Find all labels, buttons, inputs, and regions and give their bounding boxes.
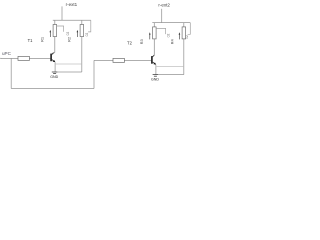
- wire: supply rail 1: [53, 19, 91, 21]
- wire: rail end hook down to tag: [88, 20, 91, 32]
- resistor R2 branch: top lead: [81, 20, 83, 24]
- svg-text:R1: R1: [40, 36, 45, 42]
- wire: ground rail horizontal to R2 leg: [57, 71, 82, 73]
- label GND (right ground): [151, 78, 159, 82]
- svg-text:r-ext1: r-ext1: [66, 2, 78, 7]
- wire: supply rail 2: [152, 22, 190, 24]
- transistor T1 (NPN): [51, 53, 55, 63]
- wire: uPC input horizontal to T1 base: [1, 57, 51, 59]
- wire: hook stub from R3 to label: [156, 28, 165, 34]
- svg-text:R3: R3: [139, 39, 144, 45]
- label R3 (rotated refdes): [139, 39, 144, 45]
- resistor R1 bottom lead to T1 collector: [52, 37, 55, 55]
- wire: rail end hook down to tag: [188, 23, 191, 35]
- label T1: [28, 38, 34, 43]
- svg-text:T2: T2: [127, 40, 133, 45]
- label R4 (rotated refdes): [169, 39, 174, 45]
- label R1 (rotated refdes): [40, 36, 45, 42]
- resistor R1 body: [53, 25, 57, 37]
- label T2: [127, 40, 133, 45]
- wire: emitter node horizontal to R4 leg: [156, 66, 184, 68]
- current arrow beside R4: [179, 32, 181, 39]
- node uPC (input net label): [2, 51, 12, 56]
- svg-text:r-ext2: r-ext2: [158, 2, 170, 7]
- wire: junction drop from uPC node down: [10, 58, 12, 88]
- wire: ground rail horizontal to R4 leg: [158, 74, 184, 76]
- wire: hook stub from R1 to label: [57, 26, 64, 32]
- wire: middle run to T2 base: [94, 59, 151, 61]
- resistor R4 branch: top lead: [183, 23, 185, 27]
- node r-ext1: [66, 2, 78, 7]
- current arrow beside R3: [149, 32, 151, 39]
- label R2 (rotated refdes): [67, 36, 72, 42]
- svg-text:02: 02: [85, 33, 89, 37]
- svg-text:02: 02: [166, 34, 170, 38]
- label 02 (rail hook tag): [185, 35, 189, 39]
- resistor R4 body: [182, 27, 186, 39]
- label 02 (hook net tag): [166, 34, 170, 38]
- resistor R2 long lead down to ground rail: [81, 37, 83, 73]
- svg-text:02: 02: [66, 32, 70, 36]
- resistor Rb2 (series base resistor, right): [113, 58, 124, 62]
- current arrow beside R1: [50, 30, 52, 37]
- svg-text:R2: R2: [67, 36, 72, 42]
- current arrow beside R2: [77, 30, 79, 37]
- label 02 (hook net tag): [66, 32, 70, 36]
- wire: T2 emitter down to GND: [155, 65, 157, 75]
- resistor Rb1 (series base resistor, left): [18, 56, 29, 60]
- wire: T1 emitter down to GND: [54, 62, 56, 72]
- wire: right riser of feedback loop: [93, 60, 95, 88]
- pin: uPC input terminal: [0, 58, 2, 59]
- label 02 (rail hook tag): [85, 33, 89, 37]
- ground GND1: [52, 72, 58, 74]
- resistor R3 body: [153, 27, 157, 39]
- svg-text:GND: GND: [50, 75, 58, 79]
- svg-text:uPC: uPC: [2, 51, 12, 56]
- resistor R1 branch: top lead: [54, 20, 56, 24]
- resistor R4 long lead down to ground rail: [183, 39, 185, 75]
- svg-text:T1: T1: [28, 38, 34, 43]
- wire: bottom feedback run: [11, 88, 94, 90]
- svg-text:R4: R4: [169, 39, 174, 45]
- ground GND2: [153, 75, 159, 77]
- resistor R2 body: [80, 25, 84, 37]
- svg-text:02: 02: [185, 35, 189, 39]
- wire: emitter node horizontal to R2 leg: [55, 63, 82, 65]
- resistor R3 branch: top lead: [153, 23, 155, 27]
- label GND (left ground): [50, 75, 58, 79]
- svg-text:GND: GND: [151, 78, 159, 82]
- node r-ext2: [158, 2, 170, 7]
- wire: r-ext2 supply stem: [161, 9, 163, 23]
- resistor R3 bottom lead to T2 collector: [153, 39, 155, 57]
- transistor T2 (NPN): [152, 55, 156, 65]
- wire: r-ext1 supply stem: [61, 6, 63, 20]
